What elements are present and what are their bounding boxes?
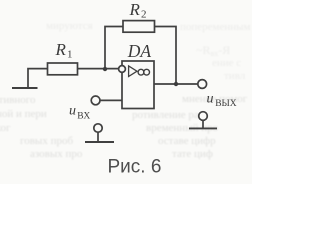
svg-text:ВХ: ВХ (77, 111, 90, 121)
svg-text:оставе цифр: оставе цифр (158, 135, 216, 147)
svg-text:Рис. 6: Рис. 6 (108, 156, 162, 177)
svg-text:ение с: ение с (212, 57, 241, 69)
svg-text:R: R (55, 40, 67, 59)
svg-text:попеременным: попеременным (180, 21, 251, 33)
svg-text:-ког: -ког (0, 122, 11, 134)
svg-text:мируются: мируются (46, 20, 93, 32)
svg-text:DA: DA (127, 41, 152, 61)
svg-text:u: u (207, 91, 214, 106)
svg-text:тивл: тивл (224, 70, 246, 82)
svg-text:2: 2 (141, 8, 147, 20)
svg-text:u: u (69, 103, 76, 118)
svg-text:1: 1 (67, 49, 73, 61)
svg-text:гтивного: гтивного (0, 94, 36, 106)
svg-text:говых проб: говых проб (20, 135, 73, 147)
svg-text:ной и пери: ной и пери (0, 108, 47, 120)
svg-text:R: R (129, 0, 141, 19)
svg-text:~Rвх-Я: ~Rвх-Я (196, 43, 230, 58)
svg-text:азовых про: азовых про (30, 148, 83, 160)
svg-text:ротивление ра: ротивление ра (132, 109, 199, 121)
svg-text:ВЫХ: ВЫХ (215, 99, 237, 109)
svg-text:тате циф: тате циф (172, 148, 213, 160)
